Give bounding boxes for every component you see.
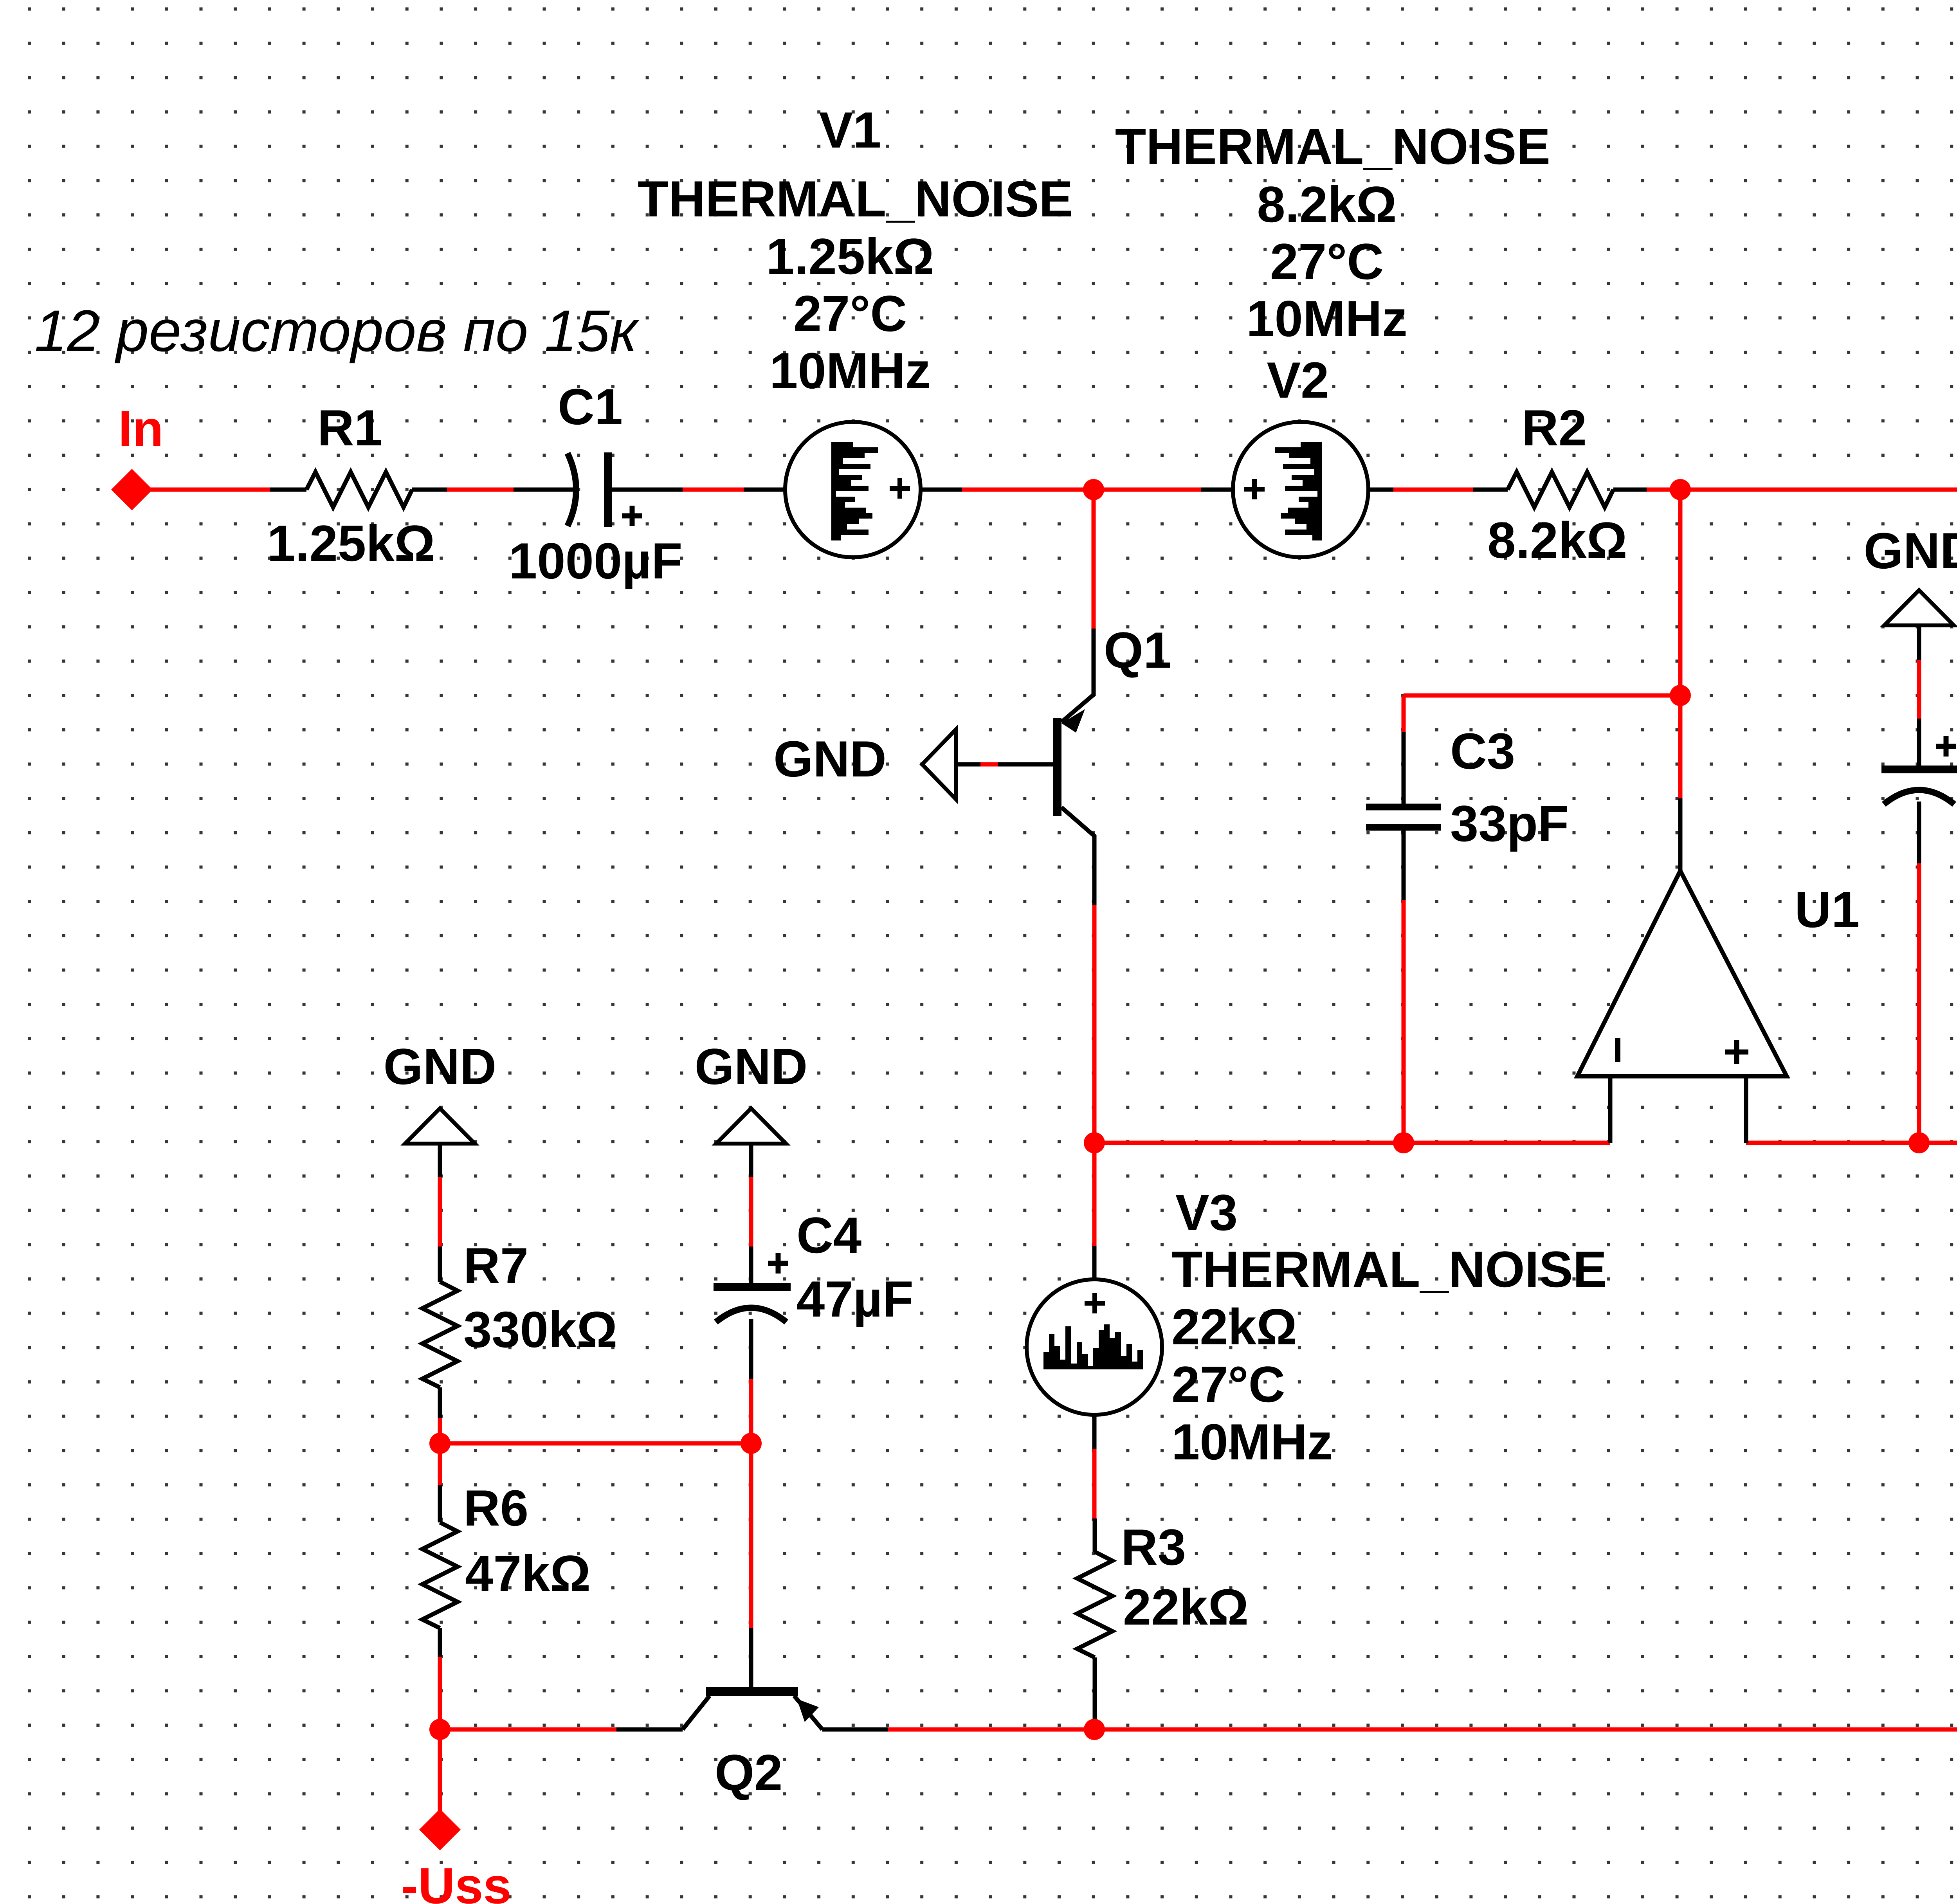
resistor R2 (1473, 488, 1508, 492)
svg-text:1.25kΩ: 1.25kΩ (267, 515, 435, 572)
wire: C4 to node (749, 1379, 753, 1443)
capacitor C4 (749, 1247, 753, 1284)
svg-text:V1: V1 (819, 101, 881, 159)
wire: C3 bottom (1402, 900, 1406, 1143)
wire: C4 upper red (749, 1177, 753, 1247)
wire: R2 to Out (1647, 488, 1957, 492)
svg-text:GND: GND (695, 1038, 808, 1095)
wire: In to R1 (132, 488, 270, 492)
wire: V1 to V2 (962, 488, 1201, 492)
wire: C2 lower red (1917, 863, 1921, 1143)
capacitor C2 (1917, 625, 1921, 660)
noise source V2 (1201, 488, 1233, 492)
svg-text:V3: V3 (1175, 1184, 1238, 1241)
svg-text:27°C: 27°C (793, 285, 907, 342)
wire: rail to -Uss (438, 1729, 442, 1830)
svg-text:THERMAL_NOISE: THERMAL_NOISE (1171, 1241, 1607, 1298)
wire: C3 top branch (1404, 694, 1680, 698)
resistor R1 (270, 488, 306, 492)
ground above C4 (716, 1108, 786, 1144)
svg-text:R7: R7 (463, 1237, 528, 1294)
wire: C1 to V1 (683, 488, 744, 492)
wire: R2 node down (1678, 490, 1683, 798)
svg-text:C4: C4 (796, 1207, 861, 1264)
wire: R6 to rail (438, 1657, 442, 1729)
junction R2 node (1670, 479, 1691, 500)
wire: bottom rail left (440, 1727, 616, 1732)
svg-text:R2: R2 (1522, 399, 1587, 456)
wire: R7-C4 node link (440, 1441, 751, 1446)
wire: node to Q2 base (749, 1443, 753, 1628)
ground Q1 base (922, 730, 956, 799)
wire: C2 upper red (1917, 660, 1921, 719)
resistor R3 (1093, 1519, 1097, 1552)
junction C2 net (1908, 1132, 1930, 1153)
svg-text:10MHz: 10MHz (769, 342, 931, 399)
svg-text:V2: V2 (1267, 351, 1329, 409)
junction R7-R6 node (429, 1433, 451, 1454)
junction C4-Q2 node (741, 1433, 762, 1454)
wire: Q2 emitter red (888, 1727, 1094, 1732)
svg-text:GND: GND (773, 730, 887, 787)
svg-text:R3: R3 (1121, 1519, 1186, 1576)
svg-text:THERMAL_NOISE: THERMAL_NOISE (638, 170, 1073, 227)
capacitor C3 (1402, 732, 1406, 805)
svg-text:27°C: 27°C (1270, 233, 1384, 290)
svg-text:Q2: Q2 (715, 1744, 782, 1801)
svg-text:27°C: 27°C (1171, 1356, 1285, 1413)
noise source V1 (744, 488, 785, 492)
junction C3 top (1670, 685, 1691, 706)
svg-text:47µF: 47µF (796, 1270, 914, 1328)
svg-text:R6: R6 (463, 1479, 528, 1537)
wire: opamp out net (1746, 1141, 1957, 1145)
wire: node to R6 (438, 1443, 442, 1485)
svg-text:1.25kΩ: 1.25kΩ (766, 228, 934, 285)
svg-text:In: In (118, 400, 164, 457)
noise source V3 (1092, 1246, 1097, 1279)
svg-text:8.2kΩ: 8.2kΩ (1487, 512, 1627, 569)
wire: bottom rail right (888, 1727, 1957, 1732)
junction R3 rail (1084, 1719, 1105, 1740)
svg-text:Q1: Q1 (1104, 621, 1171, 679)
wire: R7 to node (438, 1418, 442, 1443)
svg-text:22kΩ: 22kΩ (1171, 1298, 1297, 1355)
transistor Q1 (1092, 629, 1096, 696)
junction C3 bottom (1393, 1132, 1414, 1153)
capacitor C1 (514, 488, 573, 492)
svg-text:10MHz: 10MHz (1246, 290, 1407, 347)
svg-text:47kΩ: 47kΩ (465, 1545, 591, 1602)
svg-text:12 резисторов по 15к: 12 резисторов по 15к (34, 298, 640, 364)
resistor R6 (438, 1485, 442, 1522)
ground above C2 (1917, 625, 1921, 660)
wire: opamp minus net (1094, 1141, 1610, 1145)
op-amp U1 (1678, 798, 1683, 872)
svg-text:330kΩ: 330kΩ (463, 1301, 617, 1358)
wire: R7 upper red (438, 1177, 442, 1247)
junction V1-Q1 (1083, 479, 1104, 500)
junction -Uss rail (429, 1719, 451, 1740)
svg-text:-Uss: -Uss (401, 1857, 512, 1904)
node -Uss (419, 1809, 461, 1850)
wire: R3 lower red (1093, 1720, 1097, 1729)
wire: Q1 collector down (1092, 905, 1097, 1246)
wire: V3 upper red (1092, 1449, 1097, 1519)
svg-text:C1: C1 (558, 378, 623, 435)
ground above R7 (405, 1108, 475, 1144)
junction Q1-V3 net (1084, 1132, 1105, 1153)
resistor R7 (438, 1247, 442, 1282)
wire: node to Q1 (1092, 490, 1096, 629)
svg-text:22kΩ: 22kΩ (1123, 1578, 1249, 1636)
svg-text:U1: U1 (1795, 881, 1860, 938)
node In (111, 469, 153, 510)
svg-text:R1: R1 (317, 399, 382, 456)
wire: V2 to R2 (1393, 488, 1473, 492)
wire: R1 to C1 (447, 488, 514, 492)
svg-text:THERMAL_NOISE: THERMAL_NOISE (1115, 118, 1550, 175)
svg-text:GND: GND (384, 1038, 497, 1095)
transistor Q2 (749, 1628, 753, 1688)
svg-text:33pF: 33pF (1450, 795, 1569, 852)
svg-text:GND: GND (1864, 522, 1957, 579)
svg-text:10MHz: 10MHz (1171, 1413, 1333, 1470)
svg-text:8.2kΩ: 8.2kΩ (1257, 176, 1397, 233)
svg-text:C3: C3 (1450, 722, 1515, 780)
svg-text:1000µF: 1000µF (509, 532, 683, 589)
